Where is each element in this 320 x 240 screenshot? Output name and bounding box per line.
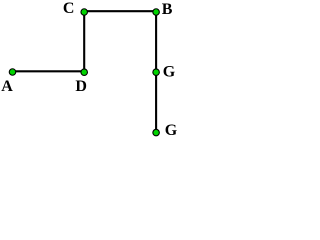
node G2	[153, 129, 160, 136]
node B	[153, 9, 160, 16]
svg-text:A: A	[1, 78, 13, 95]
wire B-G	[155, 12, 157, 72]
wire C-B	[84, 10, 156, 12]
label G (lower)	[165, 122, 178, 139]
label B	[162, 1, 173, 18]
node D	[81, 69, 88, 76]
label D	[75, 78, 87, 95]
label C	[63, 0, 75, 17]
svg-text:C: C	[63, 0, 75, 17]
label G (upper)	[163, 64, 176, 81]
wire A-D	[13, 70, 85, 72]
node A	[9, 69, 16, 76]
svg-text:D: D	[75, 78, 87, 95]
svg-text:G: G	[163, 64, 176, 81]
svg-text:G: G	[165, 122, 178, 139]
wire G-G	[155, 72, 157, 132]
node G1	[153, 69, 160, 76]
node C	[81, 9, 88, 16]
svg-text:B: B	[162, 1, 173, 18]
label A	[1, 78, 13, 95]
wire D-C	[83, 12, 85, 72]
